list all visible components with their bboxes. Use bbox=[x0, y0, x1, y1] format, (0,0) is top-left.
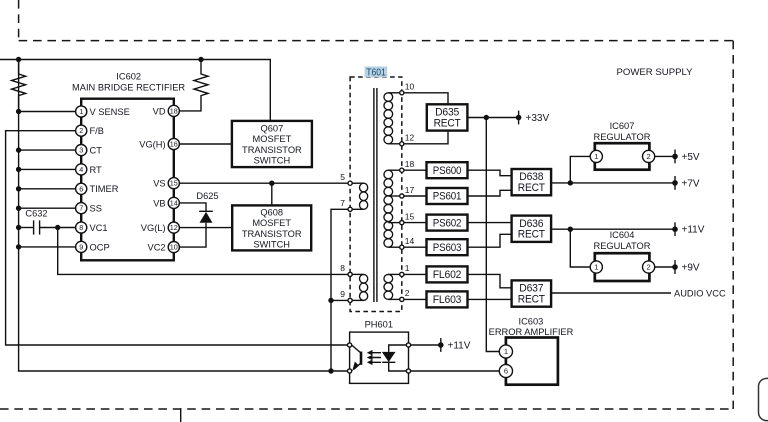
svg-text:V SENSE: V SENSE bbox=[90, 107, 130, 117]
svg-text:1: 1 bbox=[79, 107, 83, 116]
svg-text:IC604: IC604 bbox=[610, 230, 635, 240]
border dashed top bbox=[19, 40, 734, 42]
node top bus / R left bbox=[16, 57, 21, 62]
svg-text:POWER SUPPLY: POWER SUPPLY bbox=[616, 67, 693, 78]
wire pin9 into winding bbox=[352, 299, 363, 301]
rectifier D637 bbox=[512, 280, 551, 306]
wire pin14 into winding bbox=[388, 246, 399, 248]
wire D637 to AUDIO VCC bbox=[551, 292, 671, 294]
wire TIMER stub bbox=[19, 188, 76, 190]
winding primary A (5-7) bbox=[360, 183, 368, 209]
IC602 pin 10 VC2 bbox=[148, 242, 180, 253]
svg-text:PS602: PS602 bbox=[433, 217, 462, 229]
opto pin circles bbox=[348, 343, 352, 347]
svg-text:1: 1 bbox=[594, 152, 598, 161]
wire D635 to +33V bbox=[467, 117, 518, 119]
svg-text:FL602: FL602 bbox=[433, 269, 462, 281]
svg-text:18: 18 bbox=[170, 106, 178, 115]
node CT row bbox=[16, 147, 21, 152]
node OCP row bbox=[16, 244, 21, 249]
svg-text:VG(H): VG(H) bbox=[139, 139, 165, 149]
svg-text:IC603: IC603 bbox=[518, 316, 543, 326]
terminal +11V opto bbox=[438, 338, 471, 352]
regulator IC607 bbox=[590, 121, 655, 170]
op-amp IC603 error amplifier bbox=[489, 316, 574, 384]
svg-text:ERROR AMPLIFIER: ERROR AMPLIFIER bbox=[489, 327, 574, 337]
terminal +33V bbox=[516, 111, 550, 125]
svg-text:MAIN BRIDGE RECTIFIER: MAIN BRIDGE RECTIFIER bbox=[72, 83, 185, 93]
wire Q608 top feed bbox=[271, 183, 273, 205]
wire T601 to PS601 bbox=[404, 195, 427, 197]
node RT row bbox=[16, 167, 21, 172]
wire PS602 to D636 bbox=[468, 222, 512, 224]
wire CT stub bbox=[19, 149, 76, 151]
wire T601 to FL603 bbox=[404, 298, 427, 300]
T601 pin 1 bbox=[400, 263, 410, 276]
svg-text:PS601: PS601 bbox=[433, 191, 462, 203]
rectifier D638 bbox=[512, 169, 551, 195]
svg-text:15: 15 bbox=[170, 179, 178, 188]
border dashed bottom bbox=[0, 408, 733, 410]
transformer T601 outline bbox=[350, 77, 402, 312]
svg-text:6: 6 bbox=[79, 184, 83, 193]
IC602 pin 2 F/B bbox=[76, 125, 104, 136]
svg-text:RT: RT bbox=[90, 165, 103, 175]
node +7V / IC607 feed bbox=[568, 180, 573, 185]
svg-text:+7V: +7V bbox=[682, 178, 700, 189]
transistor Q608 MOSFET switch bbox=[232, 205, 311, 250]
svg-text:F/B: F/B bbox=[90, 126, 104, 136]
T601 pin 15 bbox=[400, 211, 415, 224]
IC602 pin 6 TIMER bbox=[76, 183, 119, 194]
wire pin12 into winding bbox=[388, 143, 399, 145]
transformer core bbox=[374, 88, 377, 302]
T601 pin 18 bbox=[400, 159, 415, 172]
node VC1 row bus bbox=[16, 225, 21, 230]
wire D638 to +7V bbox=[551, 182, 675, 184]
filter PS603 bbox=[427, 239, 468, 255]
svg-text:+9V: +9V bbox=[682, 263, 700, 274]
T601 pin 10 bbox=[400, 82, 415, 95]
wire top supply bus into Q607 bbox=[0, 60, 270, 121]
svg-text:2: 2 bbox=[647, 152, 651, 161]
T601 pin 2 bbox=[400, 288, 410, 301]
svg-text:PS603: PS603 bbox=[433, 242, 462, 254]
wire VS row to transformer pin 5 bbox=[179, 182, 348, 184]
wire PS603 to D636 bbox=[468, 234, 512, 247]
svg-text:15: 15 bbox=[405, 211, 415, 221]
wire IC607 input bbox=[570, 156, 590, 183]
svg-text:18: 18 bbox=[405, 159, 415, 169]
svg-text:VD: VD bbox=[153, 106, 166, 116]
wire VC1 node down to transformer pin 8 bbox=[58, 228, 348, 275]
svg-text:17: 17 bbox=[405, 185, 415, 195]
svg-text:+5V: +5V bbox=[682, 152, 700, 163]
border dashed right bbox=[732, 41, 734, 409]
wire VC1 row right of cap bbox=[40, 227, 76, 229]
wire T601 to PS603 bbox=[404, 246, 427, 248]
svg-text:3: 3 bbox=[79, 146, 83, 155]
svg-text:2: 2 bbox=[647, 263, 651, 272]
opto LED bbox=[382, 345, 407, 371]
svg-text:T601: T601 bbox=[366, 67, 386, 78]
wire V SENSE stub bbox=[19, 111, 76, 113]
wire pin18 into winding bbox=[388, 169, 399, 171]
T601 pin 14 bbox=[400, 236, 415, 249]
svg-text:VC1: VC1 bbox=[90, 223, 108, 233]
svg-text:12: 12 bbox=[405, 133, 415, 143]
svg-text:1: 1 bbox=[405, 263, 410, 273]
svg-text:8: 8 bbox=[79, 223, 83, 232]
svg-text:OCP: OCP bbox=[90, 242, 110, 252]
node pin9 tie bbox=[328, 298, 333, 303]
IC602 pin 18 VD bbox=[153, 105, 180, 116]
T601 pin 5 bbox=[340, 172, 352, 185]
IC602 pin 3 CT bbox=[76, 145, 103, 156]
IC602 pin 14 VB bbox=[153, 197, 179, 208]
svg-text:14: 14 bbox=[170, 198, 178, 207]
svg-text:2: 2 bbox=[405, 288, 410, 298]
svg-text:4: 4 bbox=[79, 165, 83, 174]
svg-text:TRANSISTOR: TRANSISTOR bbox=[242, 229, 302, 239]
node +11V / IC604 feed bbox=[568, 227, 573, 232]
terminal +11V bbox=[672, 222, 705, 236]
diode D625 bbox=[196, 191, 218, 223]
svg-text:VG(L): VG(L) bbox=[141, 223, 166, 233]
wire VG(L) to Q608 bbox=[179, 227, 232, 229]
svg-text:1: 1 bbox=[504, 347, 508, 356]
IC602 pin 16 VG(H) bbox=[139, 138, 179, 149]
svg-text:SS: SS bbox=[90, 204, 102, 214]
node 33V / error amp feed bbox=[484, 115, 489, 120]
T601 pin 7 bbox=[340, 198, 352, 211]
svg-text:VC2: VC2 bbox=[148, 243, 166, 253]
wire opto LED cathode to IC603 pin 6 bbox=[411, 370, 500, 372]
svg-text:CT: CT bbox=[90, 146, 103, 156]
regulator IC604 bbox=[590, 230, 655, 281]
svg-text:RECT: RECT bbox=[518, 182, 546, 194]
svg-text:REGULATOR: REGULATOR bbox=[594, 241, 651, 251]
wire D636 to +11V bbox=[551, 228, 675, 230]
wire VC1 row left of cap bbox=[19, 227, 34, 229]
op IC602 main bridge rectifier body bbox=[72, 71, 185, 260]
svg-text:FL603: FL603 bbox=[433, 294, 462, 306]
svg-text:VS: VS bbox=[153, 179, 165, 189]
node opto cathode row tie bbox=[328, 368, 333, 373]
IC602 pin 8 VC1 bbox=[76, 222, 108, 233]
svg-text:2: 2 bbox=[79, 126, 83, 135]
svg-text:Q608: Q608 bbox=[260, 208, 283, 218]
svg-text:RECT: RECT bbox=[518, 293, 546, 305]
svg-text:12: 12 bbox=[170, 223, 178, 232]
rectifier D635 bbox=[427, 104, 468, 130]
wire FL602 to D637 bbox=[468, 274, 512, 287]
terminal +7V bbox=[672, 176, 700, 190]
svg-text:+11V: +11V bbox=[682, 225, 705, 236]
border dashed top-left stub bbox=[18, 0, 20, 41]
off-page connector tab bottom-right bbox=[759, 378, 768, 420]
IC602 pin 12 VG(L) bbox=[141, 222, 180, 233]
svg-text:7: 7 bbox=[79, 204, 83, 213]
transistor Q607 MOSFET switch bbox=[232, 121, 312, 167]
svg-text:TIMER: TIMER bbox=[90, 184, 119, 194]
IC602 pin 15 VS bbox=[153, 178, 179, 189]
wire pin10 into winding bbox=[388, 92, 399, 94]
wire pin12 to D635 bbox=[404, 131, 448, 144]
wire pin10 to D635 bbox=[404, 93, 448, 105]
svg-text:TRANSISTOR: TRANSISTOR bbox=[242, 145, 302, 155]
terminal +5V bbox=[672, 150, 700, 164]
svg-text:9: 9 bbox=[79, 242, 83, 251]
wire RT stub bbox=[19, 168, 76, 170]
wire pin1 into winding bbox=[388, 273, 399, 275]
node TIMER row bbox=[16, 186, 21, 191]
wire left bus down to opto cathode row bbox=[19, 60, 348, 372]
wire pin9 stub bbox=[331, 299, 348, 301]
wire T601 to PS602 bbox=[404, 222, 427, 224]
svg-text:RECT: RECT bbox=[434, 117, 462, 129]
T601 pin 8 bbox=[340, 263, 352, 276]
opto light arrows bbox=[367, 350, 381, 365]
opto PH601 body bbox=[350, 319, 409, 383]
opto phototransistor bbox=[352, 345, 362, 371]
svg-text:5: 5 bbox=[340, 172, 345, 182]
wire IC604 input bbox=[570, 229, 590, 267]
node SS row bbox=[16, 206, 21, 211]
IC602 pin 9 OCP bbox=[76, 241, 110, 252]
IC602 pin 1 V SENSE bbox=[76, 106, 130, 117]
winding secondary bottom (1-2) bbox=[384, 274, 393, 299]
border section tick bottom bbox=[180, 408, 182, 422]
resistor right (VD feed) bbox=[179, 60, 208, 111]
svg-text:RECT: RECT bbox=[518, 229, 546, 241]
wire pin7 to pin9 to opto cathode row bbox=[331, 209, 348, 371]
svg-text:6: 6 bbox=[504, 367, 508, 376]
resistor left (V SENSE feed) bbox=[12, 60, 26, 112]
label T601 bbox=[365, 66, 388, 78]
capacitor C632 bbox=[25, 209, 47, 235]
svg-text:IC607: IC607 bbox=[610, 121, 635, 131]
winding secondary top (10-12) bbox=[384, 93, 393, 144]
wire PS600 to D638 bbox=[468, 170, 512, 176]
wire F/B line to opto anode row bbox=[6, 131, 348, 345]
wire pin5 into winding bbox=[352, 182, 363, 184]
wire pin17 tap bbox=[388, 195, 399, 197]
wire OCP stub bbox=[19, 246, 76, 248]
wire diode to VC2 bbox=[179, 223, 206, 247]
svg-text:16: 16 bbox=[170, 140, 178, 149]
wire IC604 to +9V bbox=[655, 266, 675, 268]
filter PS600 bbox=[427, 162, 468, 178]
svg-text:REGULATOR: REGULATOR bbox=[594, 132, 651, 142]
svg-text:MOSFET: MOSFET bbox=[253, 134, 292, 144]
svg-text:D625: D625 bbox=[196, 191, 218, 201]
node VS / Q608 bbox=[269, 181, 274, 186]
svg-text:PS600: PS600 bbox=[433, 165, 462, 177]
wire T601 to FL602 bbox=[404, 273, 427, 275]
filter FL603 bbox=[427, 291, 468, 307]
terminal +9V bbox=[672, 260, 700, 274]
IC602 pin 4 RT bbox=[76, 164, 102, 175]
wire pin15 tap bbox=[388, 222, 399, 224]
node V SENSE row bbox=[16, 109, 21, 114]
wire pin7 into winding bbox=[352, 208, 363, 210]
svg-text:PH601: PH601 bbox=[365, 319, 393, 329]
wire VG(H) to Q607 bbox=[179, 143, 232, 145]
T601 pin 12 bbox=[400, 133, 415, 146]
T601 pin 9 bbox=[340, 289, 352, 302]
winding secondary mid (18-14) bbox=[384, 170, 393, 247]
wire VB to diode bbox=[179, 203, 206, 211]
wire SS stub bbox=[19, 207, 76, 209]
wire opto collector to +11V bbox=[411, 344, 441, 346]
svg-text:MOSFET: MOSFET bbox=[252, 218, 291, 228]
svg-text:+11V: +11V bbox=[448, 341, 471, 352]
wire T601 to PS600 bbox=[404, 169, 427, 171]
wire error amp sense line bbox=[486, 118, 499, 352]
svg-text:14: 14 bbox=[405, 236, 415, 246]
svg-text:IC602: IC602 bbox=[116, 71, 141, 81]
winding primary B (8-9) bbox=[360, 274, 368, 300]
svg-text:8: 8 bbox=[340, 263, 345, 273]
svg-text:10: 10 bbox=[170, 243, 178, 252]
svg-text:C632: C632 bbox=[25, 209, 47, 219]
wire FL603 to D637 bbox=[468, 298, 512, 300]
node top bus / R right bbox=[198, 57, 203, 62]
filter PS602 bbox=[427, 215, 468, 231]
svg-text:+33V: +33V bbox=[526, 113, 550, 124]
T601 pin 17 bbox=[400, 185, 415, 198]
svg-text:SWITCH: SWITCH bbox=[253, 239, 290, 249]
IC602 pin 7 SS bbox=[76, 203, 102, 214]
svg-text:7: 7 bbox=[340, 198, 345, 208]
svg-text:1: 1 bbox=[594, 263, 598, 272]
wire IC607 to +5V bbox=[655, 155, 675, 157]
svg-text:SWITCH: SWITCH bbox=[254, 156, 291, 166]
svg-text:10: 10 bbox=[405, 82, 415, 92]
svg-text:9: 9 bbox=[340, 289, 345, 299]
wire pin8 into winding bbox=[352, 273, 363, 275]
wire PS601 to D638 bbox=[468, 190, 512, 196]
rectifier D636 bbox=[512, 216, 551, 242]
svg-text:VB: VB bbox=[153, 198, 165, 208]
svg-text:AUDIO VCC: AUDIO VCC bbox=[674, 288, 726, 298]
node VC1 / primary feed bbox=[55, 225, 60, 230]
filter FL602 bbox=[427, 266, 468, 282]
filter PS601 bbox=[427, 188, 468, 204]
svg-text:Q607: Q607 bbox=[261, 123, 284, 133]
wire pin2 into winding bbox=[388, 298, 399, 300]
